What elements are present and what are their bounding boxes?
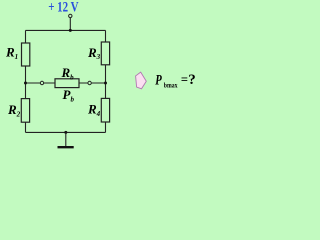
arrow callout [136,72,147,89]
svg-text:+ 12 V: + 12 V [48,0,79,16]
svg-text:bmax: bmax [164,81,178,89]
resistor R3 [101,42,109,65]
resistor R1 [22,43,30,66]
wire top rail [26,29,106,31]
terminal supply [69,14,72,17]
wire bottom rail [26,131,106,133]
terminal wiper right [88,81,91,84]
node supply junction [69,29,72,32]
wire right branch [105,30,107,132]
node bridge right [104,82,107,85]
terminal wiper left [40,81,43,84]
resistor Rb [55,79,79,88]
svg-text:P: P [155,72,162,88]
wire supply lead [69,17,71,31]
node bridge left [24,82,27,85]
resistor R2 [21,99,29,123]
wire bridge branch [26,82,106,84]
resistor R4 [101,98,109,122]
ground [58,131,74,147]
wire left branch [25,30,27,132]
svg-text:=: = [181,73,188,87]
svg-text:?: ? [188,72,196,88]
